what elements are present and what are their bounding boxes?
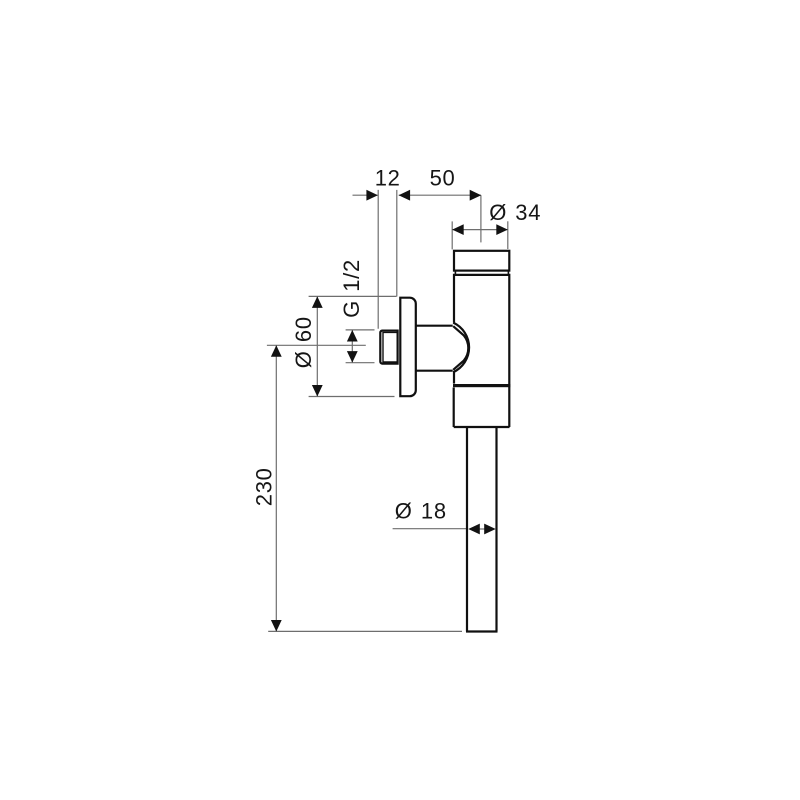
- svg-text:Ø 60: Ø 60: [291, 316, 316, 368]
- svg-text:Ø 34: Ø 34: [489, 200, 541, 225]
- svg-text:12: 12: [375, 165, 401, 190]
- svg-text:230: 230: [252, 467, 277, 506]
- svg-text:G 1/2: G 1/2: [339, 259, 364, 318]
- svg-text:Ø 18: Ø 18: [395, 499, 447, 524]
- svg-text:50: 50: [430, 165, 456, 190]
